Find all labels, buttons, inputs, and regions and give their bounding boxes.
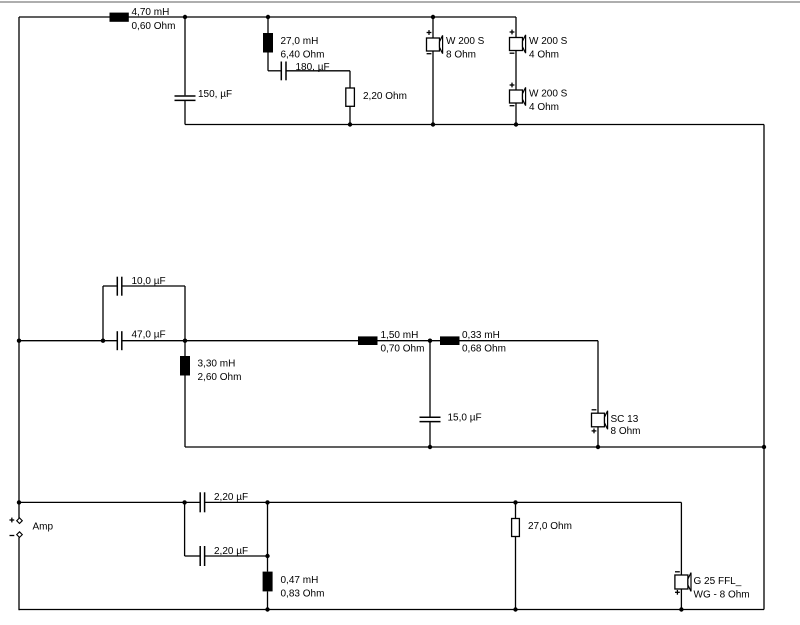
capacitor C 47,0 uF	[117, 330, 165, 351]
node bottom section rail / 27 Ohm branch	[513, 500, 517, 504]
node bottom section rail / 0,47mH branch	[265, 500, 269, 504]
speaker SC 13 8 Ohm	[592, 341, 641, 447]
resistor R 27,0 Ohm	[512, 502, 572, 609]
svg-text:0,70 Ohm: 0,70 Ohm	[381, 343, 425, 354]
node middle rail / 15uF branch	[428, 339, 432, 343]
wire middle rail	[19, 340, 117, 342]
svg-text:W 200 S: W 200 S	[446, 36, 485, 47]
speaker G 25 FFL_WG 8 Ohm	[675, 502, 750, 609]
svg-text:180, µF: 180, µF	[296, 62, 330, 73]
inductor L 0,47 mH	[263, 502, 325, 609]
node middle rail / 3,30 mH branch	[183, 339, 187, 343]
speaker W 200 S 4 Ohm lower	[510, 83, 568, 125]
svg-text:WG - 8 Ohm: WG - 8 Ohm	[694, 590, 750, 601]
capacitor C 180uF	[268, 62, 350, 81]
node bottom rail / G25	[679, 607, 683, 611]
capacitor C 15,0 uF	[420, 341, 482, 447]
svg-text:2,20 µF: 2,20 µF	[214, 546, 248, 557]
node loop right / 0,47mH branch	[265, 554, 269, 558]
inductor L 3,30 mH	[180, 341, 241, 447]
svg-text:150, µF: 150, µF	[198, 89, 232, 100]
svg-text:4 Ohm: 4 Ohm	[529, 102, 559, 113]
svg-text:0,33 mH: 0,33 mH	[462, 330, 500, 341]
svg-text:0,68 Ohm: 0,68 Ohm	[462, 343, 506, 354]
svg-text:8 Ohm: 8 Ohm	[611, 426, 641, 437]
node bottom rail / speaker W200S-1	[431, 122, 435, 126]
inductor L 0,33 mH	[440, 330, 506, 355]
inductor L 4,70 mH	[110, 7, 176, 32]
inductor L 1,50 mH	[358, 330, 424, 355]
svg-text:4 Ohm: 4 Ohm	[529, 50, 559, 61]
svg-text:3,30 mH: 3,30 mH	[198, 359, 236, 370]
wire bottom section top rail	[19, 501, 200, 503]
node top rail / 150uF branch	[183, 15, 187, 19]
svg-text:27,0 mH: 27,0 mH	[281, 36, 319, 47]
capacitor C 2,20 uF upper	[200, 492, 248, 512]
speaker W 200 S 4 Ohm upper	[510, 17, 568, 90]
svg-text:1,50 mH: 1,50 mH	[381, 330, 419, 341]
node bottom rail / speaker W200S-2 branch	[514, 122, 518, 126]
node middle bottom rail / 15uF	[428, 445, 432, 449]
resistor R 2,20 Ohm	[346, 71, 407, 125]
node middle bottom rail / right vertical	[762, 445, 766, 449]
inductor L 27,0 mH	[263, 17, 324, 71]
svg-text:0,83 Ohm: 0,83 Ohm	[281, 589, 325, 600]
capacitor C 2,20 uF lower	[185, 502, 268, 566]
wire middle section bottom rail	[185, 446, 764, 448]
svg-text:15,0 µF: 15,0 µF	[448, 413, 482, 424]
svg-text:8 Ohm: 8 Ohm	[446, 50, 476, 61]
wire top rail	[19, 16, 516, 18]
svg-text:0,47 mH: 0,47 mH	[281, 575, 319, 586]
node top rail / 27mH branch	[266, 15, 270, 19]
svg-text:6,40 Ohm: 6,40 Ohm	[281, 50, 325, 61]
svg-text:W 200 S: W 200 S	[529, 89, 568, 100]
node middle rail / 10uF loop	[101, 339, 105, 343]
wire left vertical lower	[18, 537, 20, 610]
node top rail / speaker W200S-1 branch	[431, 15, 435, 19]
svg-text:Amp: Amp	[33, 522, 54, 533]
svg-text:0,60 Ohm: 0,60 Ohm	[132, 21, 176, 32]
node left vertical / middle rail	[17, 339, 21, 343]
svg-text:4,70 mH: 4,70 mH	[132, 7, 170, 18]
node bottom rail / resistor 2,20	[348, 122, 352, 126]
node bottom rail / 0,47mH	[265, 607, 269, 611]
capacitor C 10,0 uF	[103, 276, 185, 341]
capacitor C 150uF	[175, 17, 233, 125]
wire bottom rail	[19, 609, 764, 611]
svg-text:2,20 µF: 2,20 µF	[214, 492, 248, 503]
svg-text:10,0 µF: 10,0 µF	[132, 276, 166, 287]
speaker W 200 S 8 Ohm	[427, 17, 485, 125]
node bottom rail / 27 Ohm	[513, 607, 517, 611]
svg-text:2,60 Ohm: 2,60 Ohm	[198, 372, 242, 383]
svg-text:2,20 Ohm: 2,20 Ohm	[363, 91, 407, 102]
wire left vertical upper	[18, 17, 20, 518]
node left vertical / bottom section rail	[17, 500, 21, 504]
svg-text:G 25 FFL_: G 25 FFL_	[694, 576, 742, 587]
svg-text:27,0 Ohm: 27,0 Ohm	[528, 521, 572, 532]
source Amp	[9, 518, 53, 538]
wire right vertical	[763, 125, 765, 610]
wire top section bottom rail	[185, 124, 764, 126]
node middle bottom rail / SC13	[596, 445, 600, 449]
svg-text:W 200 S: W 200 S	[529, 36, 568, 47]
node bottom section rail / loop left	[182, 500, 186, 504]
svg-text:47,0 µF: 47,0 µF	[132, 330, 166, 341]
svg-text:SC 13: SC 13	[611, 414, 639, 425]
